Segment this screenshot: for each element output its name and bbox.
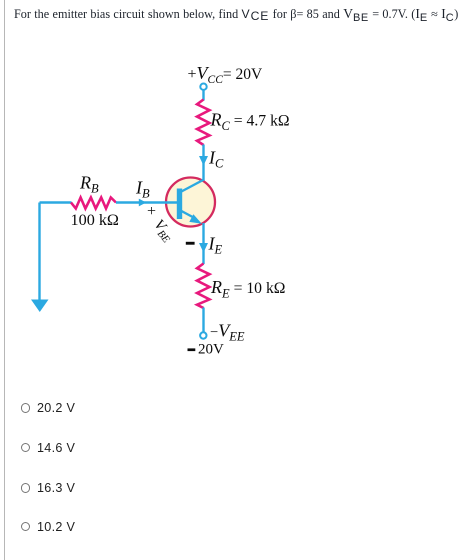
- ground arrow: [31, 300, 49, 313]
- collector lead: [181, 180, 205, 193]
- svg-text:−VEE: −VEE: [210, 321, 245, 344]
- svg-text:100 kΩ: 100 kΩ: [71, 211, 119, 229]
- svg-text:IB: IB: [135, 178, 150, 201]
- emitter lead: [181, 211, 195, 219]
- option 3 radio: [0, 478, 1, 498]
- svg-text:20V: 20V: [198, 342, 224, 358]
- resistor RB: [71, 198, 116, 209]
- transistor Q1 body: [166, 178, 215, 227]
- base wire: [40, 201, 72, 203]
- svg-text:RE = 10 kΩ: RE = 10 kΩ: [210, 277, 285, 301]
- wire emitter down: [202, 223, 204, 264]
- VEE terminal: [200, 332, 206, 338]
- resistor RC: [197, 100, 210, 146]
- left vertical wire: [38, 203, 40, 300]
- svg-text:VBE: VBE: [149, 217, 177, 246]
- svg-text:IE: IE: [208, 234, 223, 257]
- IE current arrow: [199, 243, 208, 253]
- emitter arrowhead: [189, 214, 202, 223]
- question title: [14, 6, 458, 22]
- VCC terminal: [200, 84, 206, 90]
- wire VCC to RC: [202, 90, 204, 100]
- option 1 radio: [0, 398, 1, 418]
- option 2 radio: [0, 438, 1, 458]
- label minus of VBE: [186, 242, 195, 245]
- left border line: [4, 0, 6, 560]
- wire RB to base: [116, 201, 177, 203]
- option 4 radio: [0, 517, 1, 537]
- label VBE rotated: [149, 217, 177, 246]
- svg-text:RC = 4.7 kΩ: RC = 4.7 kΩ: [210, 110, 290, 134]
- resistor RE: [197, 264, 210, 309]
- svg-text:IC: IC: [208, 148, 224, 171]
- label -20V: [188, 348, 196, 351]
- base bar: [177, 189, 182, 220]
- wire RE to VEE terminal: [202, 308, 204, 332]
- IC current arrow: [199, 156, 208, 166]
- svg-text:+: +: [147, 203, 156, 220]
- IB current arrow: [139, 199, 146, 207]
- svg-text:RB: RB: [79, 173, 99, 196]
- wire RC to transistor: [202, 145, 204, 182]
- svg-text:+VCC= 20V: +VCC= 20V: [188, 63, 263, 86]
